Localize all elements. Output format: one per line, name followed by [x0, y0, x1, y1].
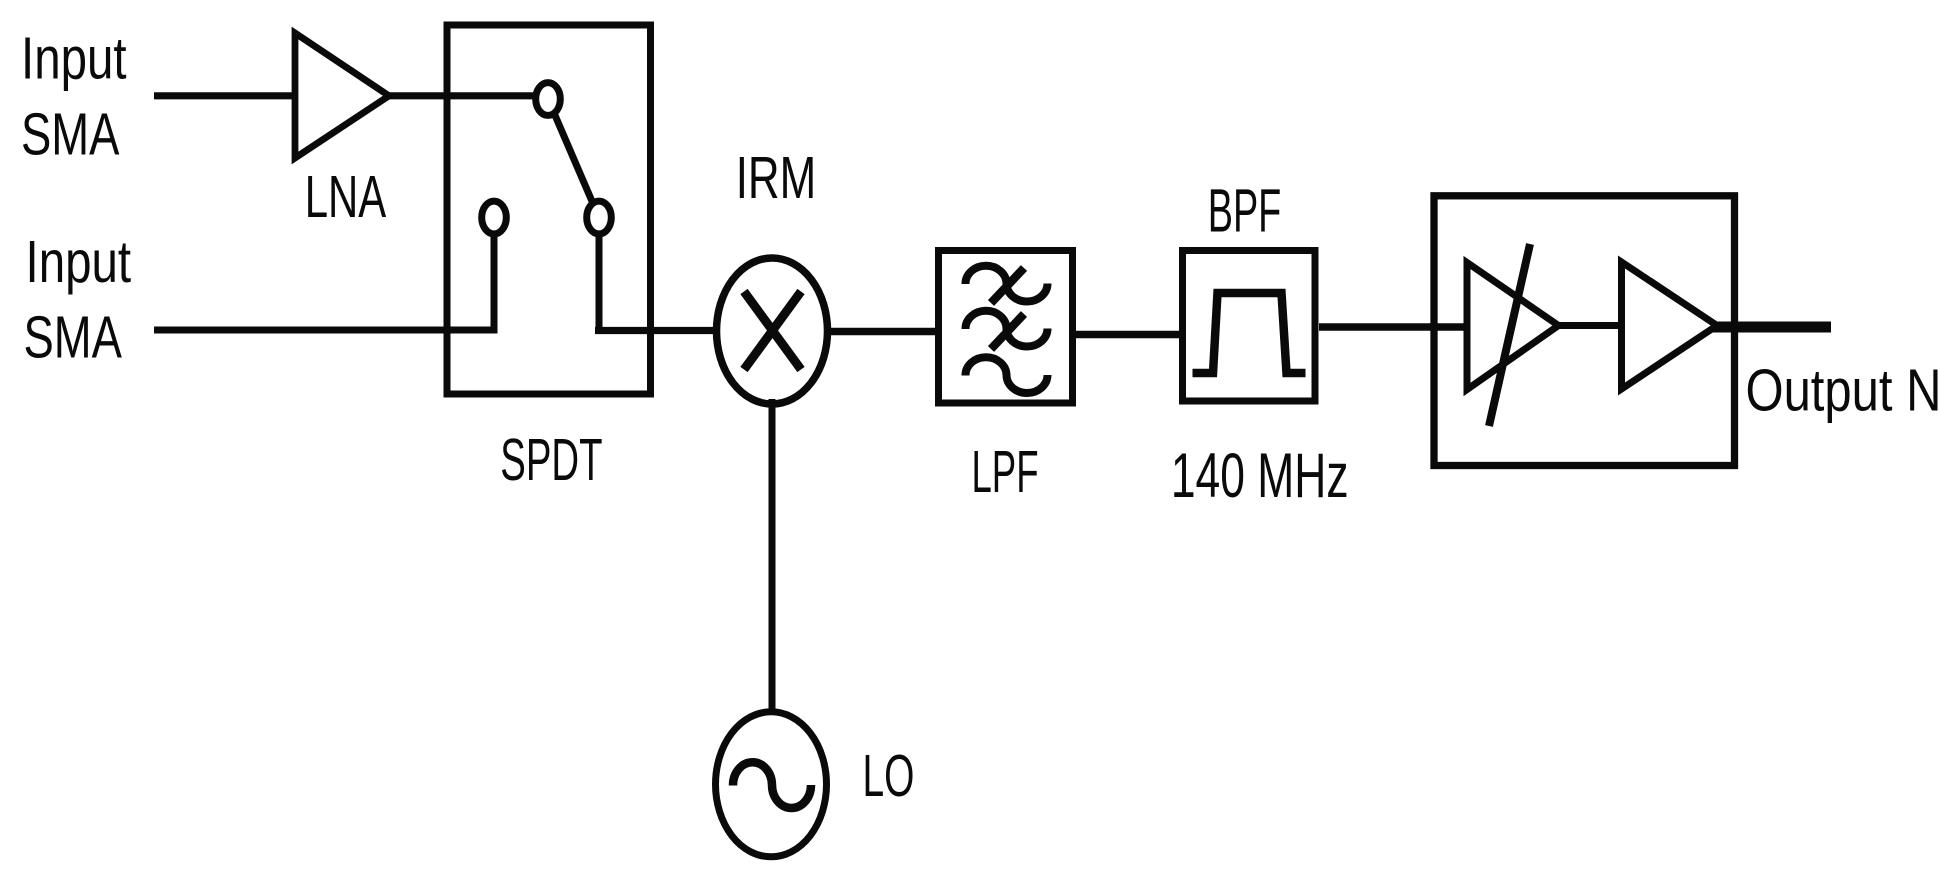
oscillator LO: [716, 712, 827, 857]
wire mixer to LPF: [827, 328, 941, 336]
output stage box: [1434, 196, 1735, 466]
switch arm: [548, 99, 599, 218]
switch right contact: [587, 201, 612, 234]
svg-text:SMA: SMA: [21, 102, 120, 168]
wire input 1 to LNA: [154, 92, 296, 99]
node Input SMA 2 label: [24, 230, 132, 371]
variable attenuator: [1467, 263, 1559, 390]
wire LNA to SPDT pole: [388, 92, 538, 99]
svg-text:IRM: IRM: [736, 146, 817, 212]
filter box BPF: [1183, 251, 1316, 402]
wire SPDT to mixer: [595, 327, 718, 334]
svg-text:LNA: LNA: [305, 164, 387, 230]
node Input SMA 1 label: [21, 27, 127, 168]
svg-text:LO: LO: [863, 743, 915, 809]
svg-text:SPDT: SPDT: [500, 426, 602, 492]
output amplifier: [1622, 262, 1718, 389]
wire input 2: [154, 327, 497, 334]
stem of left contact: [491, 218, 498, 334]
mixer IRM: [717, 258, 828, 404]
svg-text:SMA: SMA: [24, 305, 123, 371]
attenuator slash: [1489, 244, 1530, 426]
wire mixer to LO: [769, 399, 776, 716]
BPF response curve: [1193, 293, 1306, 373]
wire attenuator to amplifier: [1555, 322, 1625, 329]
svg-text:Output N: Output N: [1746, 358, 1940, 423]
switch box SPDT: [447, 25, 651, 394]
LPF wave 1 with slash: [965, 266, 1047, 303]
svg-text:LPF: LPF: [971, 440, 1038, 505]
switch left contact: [482, 201, 507, 234]
LPF wave 3: [965, 357, 1047, 393]
svg-text:Input: Input: [21, 27, 127, 92]
svg-text:140 MHz: 140 MHz: [1171, 440, 1349, 511]
wire BPF to output stage: [1319, 323, 1468, 331]
LPF wave 2 with slash: [965, 311, 1047, 349]
filter box LPF: [939, 251, 1073, 404]
switch pole contact: [536, 83, 561, 116]
stem of right contact: [596, 218, 603, 334]
amplifier LNA: [295, 33, 389, 158]
svg-text:Input: Input: [26, 230, 132, 295]
wire output N: [1713, 322, 1831, 333]
wire LPF to BPF: [1072, 331, 1186, 338]
svg-text:BPF: BPF: [1208, 176, 1282, 245]
